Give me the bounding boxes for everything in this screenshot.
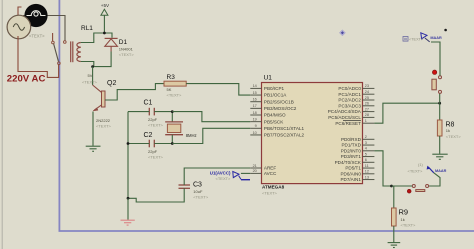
node: ground rail junction	[127, 197, 130, 200]
small icon + <TEXT> left of terminal	[403, 37, 424, 42]
svg-text:PC4/ADC4/SDA: PC4/ADC4/SDA	[328, 109, 362, 114]
node: reset junction	[438, 102, 441, 105]
wire: lamp horizontal line to relay contact	[23, 16, 65, 41]
node: C2 left junction	[127, 142, 130, 145]
svg-text:20: 20	[253, 169, 257, 173]
terminal MAAR (top right)	[421, 33, 442, 42]
wire: AC source top stub	[18, 7, 22, 16]
button (vertical)	[432, 70, 442, 93]
svg-text:21: 21	[253, 164, 257, 168]
relay contact (switch)	[52, 33, 67, 65]
svg-text:<TEXT>: <TEXT>	[96, 124, 112, 129]
node: R9 junction	[390, 185, 393, 188]
wire: C2 left	[128, 143, 149, 145]
svg-text:PB0/ICP1: PB0/ICP1	[264, 86, 285, 91]
sheet border vertical blue line	[58, 0, 60, 231]
ground: Q2 emitter	[86, 146, 101, 151]
svg-text:PB5/SCK: PB5/SCK	[264, 119, 284, 124]
svg-text:10uF: 10uF	[193, 189, 203, 194]
svg-text:PB4/MISO: PB4/MISO	[264, 113, 286, 118]
svg-text:R9: R9	[399, 207, 409, 216]
node: +5V junction	[103, 32, 106, 35]
svg-text:PC5/ADC5/SCL: PC5/ADC5/SCL	[328, 115, 361, 120]
svg-text:PB7/TOSC2/XTAL2: PB7/TOSC2/XTAL2	[264, 133, 305, 138]
svg-text:5K: 5K	[167, 87, 172, 92]
svg-text:8MHz: 8MHz	[186, 133, 197, 138]
svg-text:25: 25	[365, 96, 369, 100]
svg-text:PC6/RESET: PC6/RESET	[335, 121, 361, 126]
svg-text:<TEXT>: <TEXT>	[148, 154, 164, 159]
svg-text:22pF: 22pF	[148, 149, 158, 154]
svg-text:1k: 1k	[401, 217, 405, 222]
svg-text:1: 1	[365, 119, 367, 123]
svg-text:PD0/RXD: PD0/RXD	[341, 137, 362, 142]
U1 left pin stubs	[250, 88, 261, 173]
svg-text:PD3/INT1: PD3/INT1	[341, 154, 362, 159]
svg-text:<TEXT>: <TEXT>	[29, 34, 45, 39]
svg-text:PD7/AIN1: PD7/AIN1	[340, 177, 361, 182]
svg-text:6: 6	[365, 158, 367, 162]
wire: RESET pin 1 to button/R8 junction	[374, 103, 439, 123]
svg-text:1k: 1k	[446, 128, 450, 133]
svg-text:15: 15	[253, 91, 257, 95]
svg-text:PD6/AIN0: PD6/AIN0	[340, 171, 361, 176]
svg-text:<TEXT>: <TEXT>	[193, 194, 209, 199]
svg-text:PB3/MOSI/OC2: PB3/MOSI/OC2	[264, 106, 297, 111]
wire: R9 to bottom ground	[393, 226, 395, 242]
wire: switch to button right	[429, 173, 440, 186]
svg-text:23: 23	[365, 84, 369, 88]
svg-text:11: 11	[365, 164, 369, 168]
svg-text:PC3/ADC3: PC3/ADC3	[338, 103, 361, 108]
IC U1 ATMEGA8	[262, 75, 363, 196]
wire: Q2 base to R3	[105, 84, 164, 100]
svg-text:<TEXT>: <TEXT>	[446, 134, 462, 139]
power terminal U1(AVCC)	[210, 170, 250, 180]
wire: Q2 emitter to ground	[92, 112, 94, 146]
wire: D1 anode / coil bottom to Q2 collector	[93, 52, 112, 67]
node: C1 right junction	[171, 110, 174, 113]
wire: C1 right to crystal top	[154, 112, 172, 122]
capacitor C3	[179, 185, 191, 188]
resistor R9	[392, 208, 397, 226]
ground: below R8	[432, 154, 447, 159]
resistor R8	[439, 103, 441, 120]
wire: junction up to button	[439, 93, 441, 103]
svg-text:5: 5	[365, 152, 367, 156]
relay coil RL1	[71, 41, 81, 62]
svg-text:10: 10	[253, 131, 257, 135]
svg-text:3: 3	[365, 141, 367, 145]
svg-text:<TEXT>: <TEXT>	[119, 52, 135, 57]
svg-text:C1: C1	[144, 100, 153, 107]
svg-text:PB6/TOSC1/XTAL1: PB6/TOSC1/XTAL1	[264, 126, 305, 131]
svg-text:5V: 5V	[88, 73, 93, 78]
svg-text:PC0/ADC0: PC0/ADC0	[338, 86, 361, 91]
svg-text:<TEXT>: <TEXT>	[82, 79, 98, 84]
switch SW (blue lever)	[408, 162, 447, 174]
svg-text:220V AC: 220V AC	[7, 73, 46, 84]
wire: AC source bottom to contact common	[18, 36, 59, 77]
wire: XTAL lower to U1 pin 9	[172, 128, 250, 143]
svg-text:28: 28	[365, 113, 369, 117]
svg-text:PD5/T1: PD5/T1	[345, 166, 361, 171]
svg-text:PB1/OC1A: PB1/OC1A	[264, 93, 287, 98]
wire: C3 bottom to ground rail node	[128, 188, 184, 202]
svg-text:22pF: 22pF	[148, 117, 158, 122]
+5V power terminal	[101, 3, 110, 33]
svg-text:<TEXT>: <TEXT>	[408, 169, 424, 174]
svg-text:(1): (1)	[418, 162, 424, 167]
capacitor C2	[149, 140, 154, 148]
svg-text:PB2/SS/OC1B: PB2/SS/OC1B	[264, 99, 294, 104]
wire: crystal bottom to C2 right	[154, 135, 172, 144]
svg-text:R3: R3	[167, 74, 176, 81]
svg-text:<TEXT>: <TEXT>	[401, 222, 417, 227]
svg-text:C2: C2	[144, 132, 153, 139]
svg-text:AVCC: AVCC	[264, 171, 277, 176]
resistor R3	[164, 81, 186, 86]
svg-text:U1(AVCC): U1(AVCC)	[210, 170, 231, 175]
capacitor C1	[149, 108, 154, 116]
U1 right pin numbers	[365, 84, 369, 179]
svg-text:AREF: AREF	[264, 166, 276, 171]
wire: down to Q2 collector	[92, 67, 94, 85]
svg-text:U1: U1	[264, 75, 273, 82]
origin marker (blue diamond)	[339, 30, 345, 36]
U1 left pin numbers	[253, 84, 257, 173]
wire: C1 left	[128, 111, 149, 113]
sheet border horizontal blue line	[59, 230, 474, 232]
AC source V1 220V	[7, 15, 31, 39]
svg-text:<TEXT>: <TEXT>	[167, 92, 183, 97]
svg-text:<TEXT>: <TEXT>	[216, 176, 232, 181]
wire: PD pin to button left / R9	[374, 151, 412, 186]
lamp LP1	[24, 4, 47, 27]
svg-text:PD2/INT0: PD2/INT0	[341, 148, 362, 153]
button (horizontal)	[407, 185, 428, 194]
crystal X1 8MHz	[165, 122, 183, 135]
ground (pink) below C3 node	[121, 220, 135, 225]
svg-text:14: 14	[253, 84, 257, 88]
wire: R3 to U1 pin 15	[186, 84, 250, 95]
svg-text:18: 18	[253, 111, 257, 115]
wire: C3 top to AREF pin 21	[184, 168, 250, 185]
svg-text:D1: D1	[119, 39, 128, 46]
transistor Q2 2N2222	[93, 85, 105, 111]
svg-text:+5V: +5V	[101, 3, 110, 8]
wire: junction down to R9	[392, 186, 394, 208]
svg-text:16: 16	[253, 98, 257, 102]
U1 right pin labels	[328, 86, 362, 182]
svg-text:PC2/ADC2: PC2/ADC2	[338, 98, 361, 103]
svg-text:12: 12	[365, 170, 369, 174]
svg-text:2N2222: 2N2222	[96, 118, 111, 123]
svg-text:9: 9	[255, 124, 257, 128]
node: C2 right junction	[171, 142, 174, 145]
svg-text:C3: C3	[193, 182, 202, 189]
wire: coil bottom	[81, 62, 94, 67]
left sheet edge line	[1, 0, 3, 249]
svg-text:MAAR: MAAR	[435, 169, 447, 173]
svg-text:PC1/ADC1: PC1/ADC1	[338, 92, 361, 97]
svg-text:19: 19	[253, 117, 257, 121]
node: collector junction	[91, 65, 94, 68]
wire: R8 to ground	[439, 136, 441, 154]
svg-text:MAAR: MAAR	[430, 36, 442, 40]
svg-text:1N4001: 1N4001	[119, 47, 134, 52]
wire: button top to MAAR terminal	[431, 42, 440, 76]
svg-text:ATMEGA8: ATMEGA8	[262, 185, 285, 190]
svg-text:4: 4	[365, 147, 367, 151]
svg-text:RL1: RL1	[81, 25, 93, 32]
svg-text:PD4/T0/XCK: PD4/T0/XCK	[335, 160, 362, 165]
diode D1	[105, 38, 118, 51]
ground: below R9	[388, 243, 401, 248]
wire: AVCC pin 20	[241, 172, 250, 174]
U1 right pin stubs	[363, 88, 375, 179]
overline on RESET pin label	[343, 119, 361, 121]
svg-text:PD1/TXD: PD1/TXD	[341, 143, 361, 148]
wire: left rail down to ground node	[127, 112, 129, 199]
svg-text:Q2: Q2	[107, 80, 116, 87]
svg-text:<TEXT>: <TEXT>	[409, 38, 424, 42]
svg-text:<TEXT>: <TEXT>	[262, 191, 278, 196]
svg-text:24: 24	[365, 90, 369, 94]
stray dot top right	[444, 29, 447, 32]
svg-text:17: 17	[253, 104, 257, 108]
svg-text:27: 27	[365, 107, 369, 111]
wire: rail to pink ground	[127, 198, 129, 220]
svg-text:<TEXT>: <TEXT>	[148, 122, 164, 127]
wire: coil top to +5V node and D1 cathode	[81, 33, 112, 43]
wire: XTAL upper to U1 pin 19	[172, 112, 250, 122]
svg-text:2: 2	[365, 135, 367, 139]
svg-text:13: 13	[365, 175, 369, 179]
svg-text:26: 26	[365, 102, 369, 106]
U1 left pin labels	[264, 86, 305, 176]
